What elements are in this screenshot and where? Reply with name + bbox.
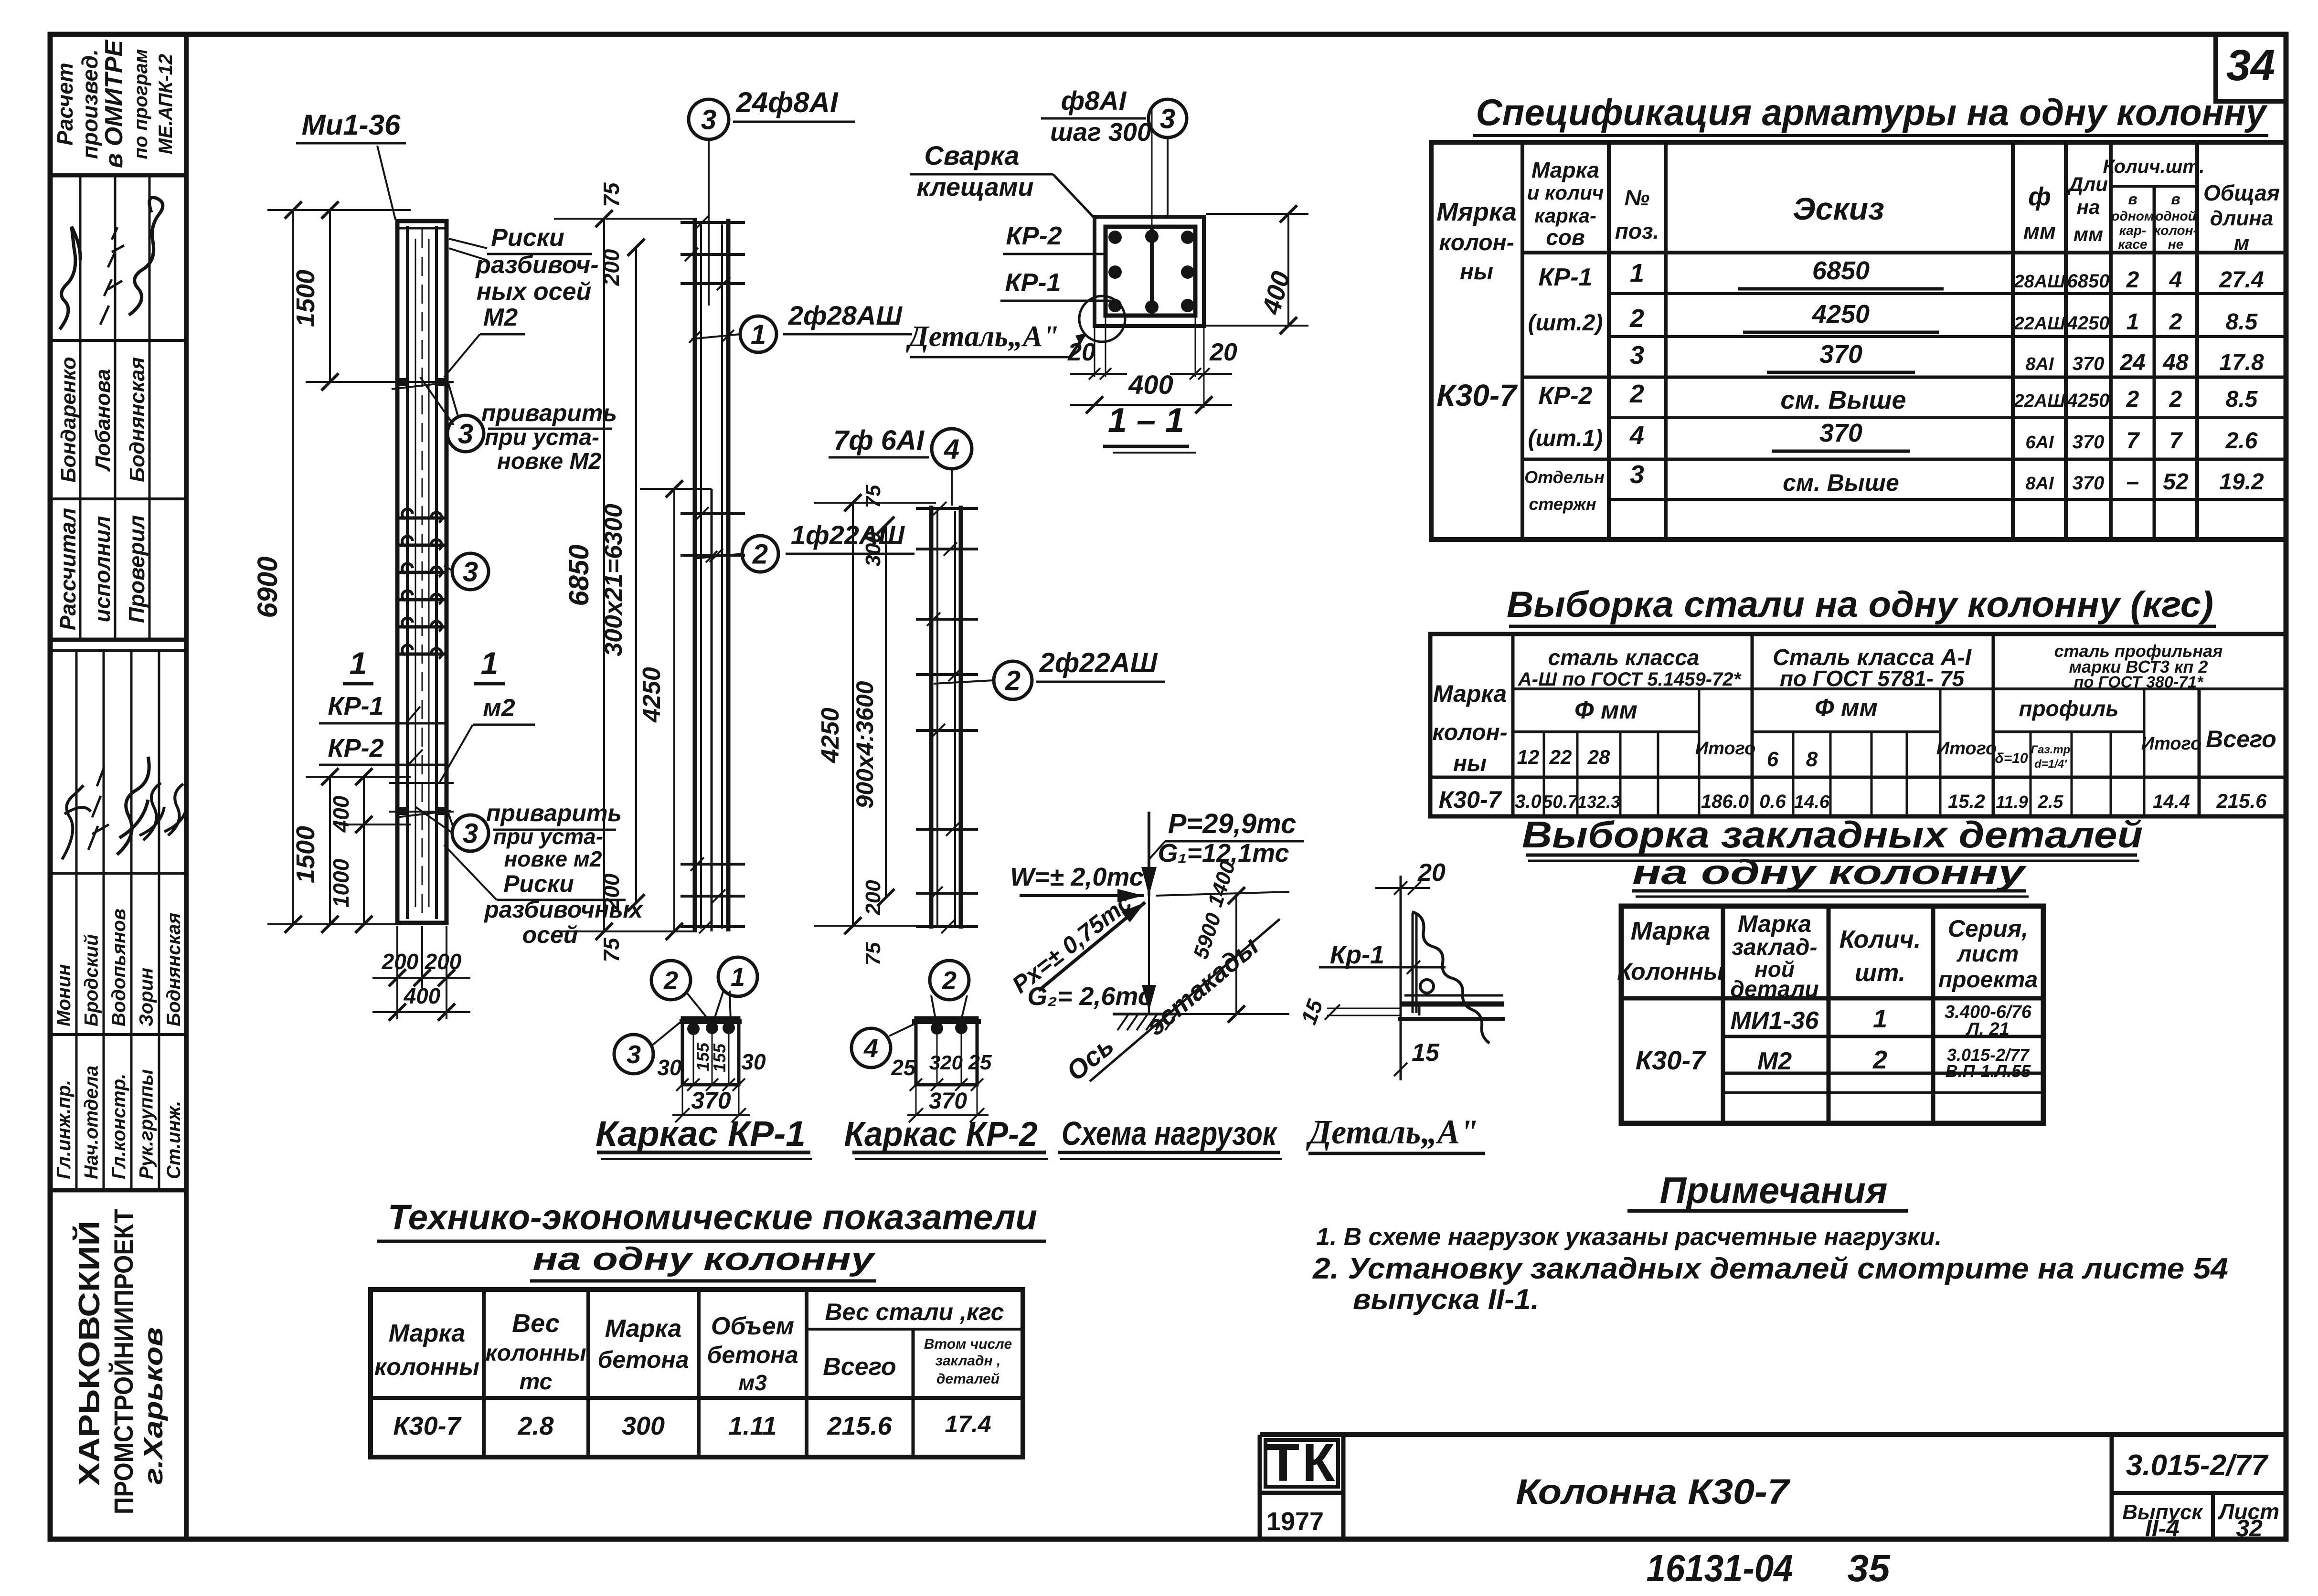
svg-text:м2: м2 <box>483 694 515 722</box>
svg-text:215.6: 215.6 <box>2216 790 2267 812</box>
svg-text:Выборка закладных деталей: Выборка закладных деталей <box>1522 814 2143 856</box>
svg-text:2ф28АШ: 2ф28АШ <box>788 300 903 330</box>
svg-text:Боднянская: Боднянская <box>163 913 184 1026</box>
svg-text:6900: 6900 <box>252 556 283 618</box>
svg-text:8: 8 <box>1806 748 1818 771</box>
svg-text:1000: 1000 <box>329 858 353 908</box>
svg-text:ны: ны <box>1460 259 1493 285</box>
svg-text:КР-2: КР-2 <box>1539 382 1593 410</box>
svg-text:2: 2 <box>663 966 678 995</box>
ground line with hatch <box>1113 1013 1180 1015</box>
column edge line <box>1400 876 1402 1080</box>
load diagram <box>1007 808 1304 1159</box>
svg-text:Колич.шт.: Колич.шт. <box>2103 156 2205 177</box>
svg-text:Эскиз: Эскиз <box>1793 191 1884 226</box>
svg-text:17.4: 17.4 <box>945 1411 991 1437</box>
svg-text:Кр-1: Кр-1 <box>1330 941 1384 969</box>
svg-text:1 – 1: 1 – 1 <box>1108 402 1184 440</box>
svg-text:17.8: 17.8 <box>2219 350 2264 375</box>
svg-text:Марка: Марка <box>1531 158 1599 182</box>
svg-text:22: 22 <box>1549 746 1572 768</box>
svg-text:24: 24 <box>2119 350 2145 375</box>
svg-text:колон-: колон- <box>1432 720 1507 745</box>
svg-text:1.11: 1.11 <box>728 1412 776 1440</box>
svg-text:Всего: Всего <box>2206 726 2276 752</box>
svg-text:Зорин: Зорин <box>136 968 157 1026</box>
svg-text:20: 20 <box>1417 859 1446 887</box>
svg-text:исполнил: исполнил <box>90 516 115 623</box>
svg-text:300х21=6300: 300х21=6300 <box>600 504 627 656</box>
svg-text:20: 20 <box>1209 338 1237 366</box>
svg-text:бетона: бетона <box>707 1342 798 1368</box>
svg-text:3: 3 <box>1630 341 1644 370</box>
svg-text:приварить: приварить <box>481 400 617 426</box>
svg-text:Бондаренко: Бондаренко <box>57 357 80 482</box>
svg-text:по ГОСТ 380-71*: по ГОСТ 380-71* <box>2074 673 2204 691</box>
svg-text:400: 400 <box>1128 370 1173 400</box>
svg-text:11.9: 11.9 <box>1996 792 2028 812</box>
svg-text:и колич: и колич <box>1527 181 1604 204</box>
svg-text:370: 370 <box>691 1087 731 1114</box>
svg-text:3: 3 <box>1630 460 1644 489</box>
dim 6850 <box>603 219 605 931</box>
svg-text:см. Выше: см. Выше <box>1780 386 1906 414</box>
svg-text:КР-1: КР-1 <box>1539 264 1593 291</box>
svg-text:2: 2 <box>1629 304 1644 333</box>
svg-text:шт.: шт. <box>1855 959 1905 987</box>
svg-text:приварить: приварить <box>486 800 622 826</box>
svg-text:25: 25 <box>891 1055 916 1080</box>
svg-text:28АШ: 28АШ <box>2014 272 2066 292</box>
svg-text:ф: ф <box>2028 182 2051 211</box>
svg-text:20: 20 <box>1067 338 1095 366</box>
svg-text:3: 3 <box>627 1040 641 1069</box>
page number box 34 <box>2216 34 2286 101</box>
svg-text:2: 2 <box>1872 1046 1887 1074</box>
svg-text:19.2: 19.2 <box>2219 469 2264 495</box>
svg-text:2: 2 <box>1005 665 1021 696</box>
svg-text:22АШ: 22АШ <box>2014 314 2066 334</box>
svg-text:3: 3 <box>463 818 478 849</box>
svg-text:мм: мм <box>2023 219 2056 243</box>
svg-text:1. В схеме нагрузок указаны ра: 1. В схеме нагрузок указаны расчетные на… <box>1316 1223 1942 1251</box>
svg-text:4250: 4250 <box>1812 300 1870 328</box>
svg-text:16131-04: 16131-04 <box>1647 1547 1793 1589</box>
bar KR-1 <box>1412 913 1414 1013</box>
svg-text:400: 400 <box>404 983 441 1008</box>
label Px diagonal arrow <box>1039 902 1145 991</box>
svg-text:900х4:3600: 900х4:3600 <box>851 681 878 808</box>
svg-text:Ф мм: Ф мм <box>1815 694 1878 722</box>
svg-text:34: 34 <box>2226 41 2275 90</box>
svg-text:25: 25 <box>968 1051 992 1074</box>
svg-text:30: 30 <box>741 1049 766 1074</box>
svg-text:2: 2 <box>1629 380 1644 408</box>
svg-text:(шт.2): (шт.2) <box>1528 310 1603 336</box>
svg-text:30: 30 <box>657 1055 682 1080</box>
svg-text:δ=10: δ=10 <box>1995 750 2028 766</box>
svg-text:проекта: проекта <box>1938 967 2038 993</box>
svg-text:Монин: Монин <box>53 964 74 1026</box>
svg-text:2: 2 <box>752 539 768 570</box>
svg-text:186.0: 186.0 <box>1701 791 1749 812</box>
dim 1500 bottom <box>329 777 331 924</box>
svg-text:370: 370 <box>1819 340 1862 369</box>
table: technical-economic indicators <box>371 1197 1046 1457</box>
svg-text:детали: детали <box>1730 977 1819 1002</box>
svg-text:в: в <box>2128 190 2137 208</box>
svg-text:Марка: Марка <box>1738 910 1811 937</box>
svg-text:разбивоч-: разбивоч- <box>475 251 598 279</box>
svg-text:ных осей: ных осей <box>477 278 592 306</box>
svg-text:75: 75 <box>861 942 885 965</box>
section 1-1 <box>906 85 1308 453</box>
svg-text:длина: длина <box>2210 207 2274 230</box>
svg-text:Лобанова: Лобанова <box>91 369 115 472</box>
svg-text:Вес: Вес <box>512 1309 560 1338</box>
dim 900x4=3600 <box>885 525 887 898</box>
table: specification of reinforcement <box>1431 91 2286 539</box>
svg-text:8АІ: 8АІ <box>2025 474 2054 494</box>
svg-text:Марка: Марка <box>605 1315 682 1342</box>
svg-text:Рассчитал: Рассчитал <box>55 508 80 630</box>
svg-text:4250: 4250 <box>2067 390 2110 411</box>
svg-text:–: – <box>2127 469 2139 495</box>
svg-text:сталь класса: сталь класса <box>1548 645 1700 670</box>
svg-text:14.6: 14.6 <box>1794 792 1830 812</box>
svg-text:лист: лист <box>1956 941 2019 967</box>
svg-text:1500: 1500 <box>291 826 320 883</box>
svg-text:МЕ.АПК-12: МЕ.АПК-12 <box>155 54 176 154</box>
svg-text:1: 1 <box>481 645 499 681</box>
svg-text:Мярка: Мярка <box>1436 198 1517 226</box>
svg-text:35: 35 <box>1848 1547 1891 1589</box>
svg-text:2.5: 2.5 <box>2038 792 2064 812</box>
svg-text:ХАРЬКОВСКИЙ: ХАРЬКОВСКИЙ <box>73 1221 106 1486</box>
svg-text:профиль: профиль <box>2019 696 2118 721</box>
frame KR-1 elevation <box>554 86 914 1159</box>
svg-text:Боднянская: Боднянская <box>126 357 149 482</box>
svg-text:А-Ш по ГОСТ 5.1459-72*: А-Ш по ГОСТ 5.1459-72* <box>1518 669 1742 690</box>
dim 20 top <box>1375 887 1430 889</box>
svg-text:в ОМИТРЕ: в ОМИТРЕ <box>100 40 128 168</box>
svg-text:Отдельн: Отдельн <box>1524 467 1605 487</box>
svg-text:закладн ,: закладн , <box>936 1353 1001 1369</box>
svg-text:320: 320 <box>929 1051 963 1074</box>
svg-text:6850: 6850 <box>1812 256 1870 285</box>
svg-text:370: 370 <box>2073 432 2105 453</box>
dim 6900 <box>292 210 294 924</box>
svg-text:МИ1-36: МИ1-36 <box>1731 1007 1819 1035</box>
svg-text:не: не <box>2168 237 2183 252</box>
frame KR-2 elevation <box>814 425 1165 1159</box>
svg-text:Бродский: Бродский <box>81 934 102 1026</box>
svg-text:Расчет: Расчет <box>53 63 77 145</box>
svg-text:75: 75 <box>599 182 624 207</box>
svg-text:8.5: 8.5 <box>2226 387 2258 412</box>
svg-text:Ми1-36: Ми1-36 <box>302 109 401 141</box>
svg-text:тс: тс <box>520 1369 553 1395</box>
svg-text:Спецификация арматуры на одну: Спецификация арматуры на одну колонну <box>1476 91 2268 133</box>
TK logo <box>1265 1440 1338 1487</box>
svg-text:4: 4 <box>1629 421 1644 450</box>
svg-text:8АІ: 8АІ <box>2025 354 2054 374</box>
svg-text:48: 48 <box>2162 350 2189 375</box>
svg-text:Дли: Дли <box>2067 173 2108 195</box>
svg-text:ны: ны <box>1453 751 1487 776</box>
svg-text:новке м2: новке м2 <box>504 846 602 871</box>
svg-text:Вес стали ,кгс: Вес стали ,кгс <box>825 1299 1004 1325</box>
svg-text:колон-: колон- <box>1439 230 1514 255</box>
svg-text:32: 32 <box>2236 1515 2263 1542</box>
svg-text:№: № <box>1625 185 1650 210</box>
svg-text:Деталь„А": Деталь„А" <box>1306 1113 1478 1151</box>
svg-text:колон-: колон- <box>2154 223 2198 238</box>
KR-1 ties <box>681 221 745 224</box>
svg-text:по програм: по програм <box>130 49 151 159</box>
svg-text:1: 1 <box>1630 259 1644 287</box>
detail A drawing <box>1296 859 1505 1153</box>
svg-text:7: 7 <box>2169 428 2183 454</box>
svg-text:М2: М2 <box>1757 1047 1792 1075</box>
svg-text:Итого: Итого <box>1695 739 1755 759</box>
svg-text:6АІ: 6АІ <box>2025 433 2054 453</box>
svg-text:370: 370 <box>1819 419 1862 447</box>
svg-text:на одну колонну: на одну колонну <box>1632 854 2027 892</box>
notes <box>1312 1169 2228 1315</box>
svg-text:сов: сов <box>1546 225 1584 250</box>
svg-text:м3: м3 <box>738 1370 767 1395</box>
svg-text:при уста-: при уста- <box>493 824 603 849</box>
svg-text:М2: М2 <box>483 304 518 331</box>
svg-text:Гл.инж.пр.: Гл.инж.пр. <box>53 1080 74 1179</box>
svg-text:2: 2 <box>2169 309 2182 335</box>
svg-text:1977: 1977 <box>1266 1507 1324 1536</box>
svg-text:W=± 2,0тс: W=± 2,0тс <box>1010 863 1144 891</box>
svg-text:Л. 21: Л. 21 <box>1965 1019 2010 1039</box>
svg-text:75: 75 <box>599 937 624 962</box>
dim 4250 <box>673 489 675 931</box>
svg-text:Всего: Всего <box>823 1353 896 1381</box>
dim 400 vertical <box>1287 214 1289 326</box>
svg-text:выпуска ІІ-1.: выпуска ІІ-1. <box>1353 1283 1539 1315</box>
KR-1 bars <box>693 219 697 931</box>
svg-text:Марка: Марка <box>1433 680 1507 707</box>
svg-text:15.2: 15.2 <box>1948 791 1985 812</box>
svg-text:370: 370 <box>2073 473 2105 494</box>
embed plate marks M2 <box>396 378 406 386</box>
risk marks <box>389 381 454 383</box>
svg-text:d=1/4': d=1/4' <box>2034 758 2067 771</box>
svg-text:КР-1: КР-1 <box>328 692 383 720</box>
svg-text:Каркас КР-2: Каркас КР-2 <box>844 1115 1038 1153</box>
svg-text:КР-1: КР-1 <box>1005 268 1061 297</box>
callout 2 1f22ASh <box>742 536 778 572</box>
svg-text:400: 400 <box>329 795 353 833</box>
svg-text:200: 200 <box>599 249 624 286</box>
svg-text:Колонна К30-7: Колонна К30-7 <box>1516 1472 1791 1511</box>
svg-text:В.П-1.Л.55: В.П-1.Л.55 <box>1946 1061 2031 1081</box>
stamp rows group 2 <box>75 651 78 1190</box>
svg-text:клещами: клещами <box>916 173 1033 201</box>
svg-text:300: 300 <box>622 1412 665 1440</box>
svg-text:24ф8АІ: 24ф8АІ <box>735 86 839 118</box>
svg-text:3.0: 3.0 <box>1515 791 1542 812</box>
svg-text:6850: 6850 <box>564 544 595 606</box>
vertical load line with arrows <box>1148 812 1150 896</box>
svg-text:Марка: Марка <box>389 1320 466 1347</box>
title block <box>1260 1433 2286 1542</box>
svg-text:6850: 6850 <box>2067 271 2110 292</box>
svg-text:7ф 6АІ: 7ф 6АІ <box>833 425 925 456</box>
svg-text:Рук.группы: Рук.группы <box>136 1069 157 1179</box>
svg-text:Нач.отдела: Нач.отдела <box>81 1066 102 1179</box>
column rebar lines <box>406 226 409 919</box>
svg-text:370: 370 <box>929 1089 967 1114</box>
callout 3 weld upper <box>447 415 484 452</box>
section square <box>1095 217 1204 326</box>
rebar dots <box>1108 231 1122 244</box>
svg-text:см. Выше: см. Выше <box>1783 469 1899 496</box>
svg-text:27.4: 27.4 <box>2219 267 2264 293</box>
svg-text:7: 7 <box>2127 428 2140 454</box>
svg-text:Марка: Марка <box>1631 917 1711 945</box>
svg-text:1: 1 <box>751 319 766 350</box>
svg-text:3.015-2/77: 3.015-2/77 <box>2126 1449 2269 1482</box>
svg-text:75: 75 <box>861 485 885 508</box>
svg-text:Серия,: Серия, <box>1948 915 2028 942</box>
svg-text:4: 4 <box>944 433 959 465</box>
callout 3 24f8AI top <box>689 99 729 139</box>
svg-text:200: 200 <box>599 873 624 910</box>
svg-text:Примечания: Примечания <box>1660 1169 1888 1211</box>
svg-text:колонны: колонны <box>374 1353 479 1380</box>
column K30-7 general view <box>252 109 644 1021</box>
svg-text:Гл.констр.: Гл.констр. <box>108 1074 129 1179</box>
svg-text:ТК: ТК <box>1267 1433 1338 1492</box>
svg-text:произвед.: произвед. <box>77 49 102 159</box>
svg-text:3: 3 <box>463 556 478 587</box>
svg-text:Газ.тр: Газ.тр <box>2031 743 2071 756</box>
svg-text:P=29,9тс: P=29,9тс <box>1168 808 1297 839</box>
dim 200 200 400 <box>396 926 398 1019</box>
svg-text:1: 1 <box>350 645 367 681</box>
svg-text:Водопьянов: Водопьянов <box>108 909 129 1026</box>
svg-text:Деталь„А": Деталь„А" <box>906 320 1059 353</box>
dim 400/1000 <box>363 777 365 924</box>
svg-text:ПРОМСТРОЙНИИПРОЕКТ: ПРОМСТРОЙНИИПРОЕКТ <box>108 1209 138 1514</box>
svg-text:22АШ: 22АШ <box>2014 391 2066 411</box>
svg-text:К30-7: К30-7 <box>1439 786 1502 813</box>
svg-text:г.Харьков: г.Харьков <box>138 1327 168 1485</box>
svg-text:К30-7: К30-7 <box>393 1412 462 1440</box>
bolt <box>1420 980 1434 993</box>
svg-text:касе: касе <box>2118 237 2147 252</box>
svg-text:200: 200 <box>861 880 885 916</box>
svg-text:2. Установку закладных деталей: 2. Установку закладных деталей смотрите … <box>1312 1252 2228 1285</box>
svg-text:4250: 4250 <box>817 708 844 763</box>
svg-text:G₂= 2,6тс: G₂= 2,6тс <box>1027 982 1152 1011</box>
left stamp strip <box>50 34 187 1539</box>
svg-text:28: 28 <box>1587 746 1610 768</box>
svg-text:по ГОСТ 5781- 75: по ГОСТ 5781- 75 <box>1780 666 1965 691</box>
callout 3 ties <box>452 553 489 590</box>
svg-text:6: 6 <box>1767 748 1779 771</box>
svg-text:на одну колонну: на одну колонну <box>533 1241 876 1277</box>
svg-text:колонны: колонны <box>485 1341 586 1366</box>
svg-text:2ф22АШ: 2ф22АШ <box>1039 647 1158 678</box>
KR-2 bars <box>929 506 934 929</box>
svg-text:8.5: 8.5 <box>2226 309 2258 335</box>
column outline <box>397 221 447 923</box>
dim 400 bottom <box>1070 404 1232 406</box>
svg-text:Ф мм: Ф мм <box>1574 697 1637 724</box>
svg-text:Объем: Объем <box>711 1312 794 1340</box>
dim 300x21=6300 <box>635 247 637 903</box>
svg-text:ІІ-4: ІІ-4 <box>2145 1515 2180 1542</box>
svg-text:Втом числе: Втом числе <box>924 1336 1012 1352</box>
svg-text:одном: одном <box>2111 209 2154 223</box>
svg-text:мм: мм <box>2073 223 2103 245</box>
dim 4250 KR2 <box>852 503 854 926</box>
svg-text:1: 1 <box>1873 1004 1887 1033</box>
svg-text:Схема нагрузок: Схема нагрузок <box>1062 1115 1278 1152</box>
dim 15 bottom <box>1394 1063 1407 1076</box>
svg-text:4250: 4250 <box>638 667 666 723</box>
svg-text:Каркас КР-1: Каркас КР-1 <box>595 1114 806 1153</box>
svg-text:КР-2: КР-2 <box>328 734 383 762</box>
svg-text:м: м <box>2234 232 2250 255</box>
svg-text:Итого: Итого <box>1936 739 1997 759</box>
svg-text:одной: одной <box>2155 209 2196 223</box>
svg-text:1: 1 <box>2127 309 2139 335</box>
svg-text:1500: 1500 <box>291 270 320 327</box>
svg-text:370: 370 <box>2073 353 2105 374</box>
svg-text:14.4: 14.4 <box>2153 791 2190 812</box>
callout 1 2f28ASh <box>740 316 776 352</box>
svg-text:в: в <box>2171 190 2180 208</box>
svg-text:Проверил: Проверил <box>124 515 149 623</box>
svg-text:поз.: поз. <box>1615 219 1659 243</box>
svg-text:ф8АІ: ф8АІ <box>1061 85 1127 116</box>
svg-text:Технико-экономические показате: Технико-экономические показатели <box>388 1197 1037 1237</box>
table: embedded parts selection <box>1522 814 2143 1123</box>
svg-text:(шт.1): (шт.1) <box>1528 426 1603 451</box>
svg-text:деталей: деталей <box>936 1371 1000 1387</box>
svg-text:155: 155 <box>710 1043 729 1072</box>
svg-text:1: 1 <box>731 963 745 992</box>
svg-text:бетона: бетона <box>597 1346 689 1373</box>
table: steel selection <box>1430 584 2286 816</box>
break wavy line <box>1412 912 1489 1043</box>
column tie hooks <box>399 517 445 520</box>
dims 20 bottom <box>1094 328 1095 377</box>
svg-text:2.6: 2.6 <box>2225 428 2258 454</box>
dim 5900 1400 <box>1235 896 1237 1014</box>
svg-text:Риски: Риски <box>503 870 574 897</box>
KR-2 ties <box>916 507 978 510</box>
svg-text:3: 3 <box>701 104 716 135</box>
callout 2 2f22ASh <box>994 661 1032 699</box>
svg-text:3: 3 <box>1160 103 1175 134</box>
svg-text:200: 200 <box>382 949 419 974</box>
svg-text:шаг 300: шаг 300 <box>1050 118 1151 147</box>
svg-text:2: 2 <box>2126 387 2139 412</box>
detail A circle <box>1079 296 1125 342</box>
svg-text:К30-7: К30-7 <box>1636 1045 1707 1075</box>
plate <box>1404 994 1503 997</box>
svg-text:кар-: кар- <box>2119 223 2147 238</box>
